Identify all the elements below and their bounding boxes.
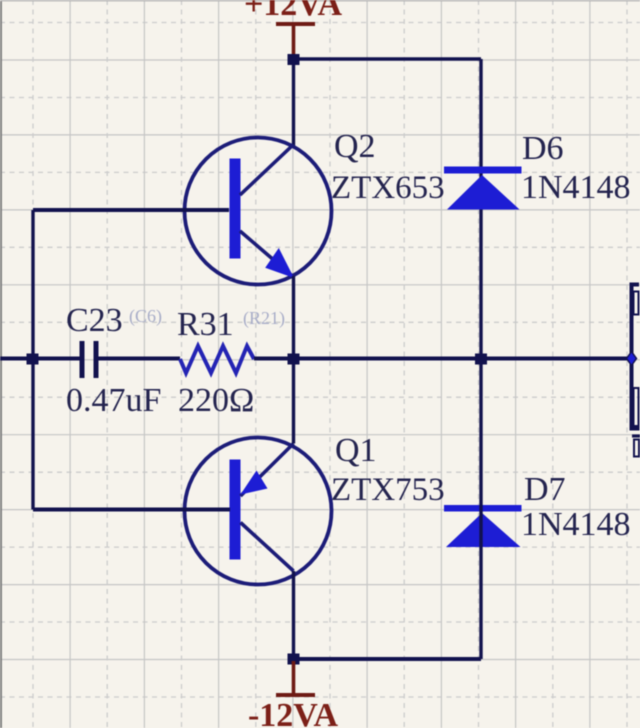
svg-text:Q2: Q2: [334, 128, 376, 165]
junction diode branch: [475, 354, 487, 365]
connector fragment right edge: [627, 285, 640, 457]
diode D6: [444, 167, 522, 210]
junction top rail: [288, 54, 300, 65]
wire left branch vertical: [31, 210, 34, 510]
wire cap to resistor: [98, 357, 180, 361]
svg-text:0.47uF: 0.47uF: [66, 382, 161, 419]
wire D6 cathode vertical: [479, 59, 482, 359]
wire Q2 collector vertical: [292, 59, 295, 148]
svg-text:D7: D7: [524, 471, 566, 508]
resistor R31: [180, 346, 254, 373]
wire Q1 base horizontal: [33, 508, 230, 512]
wire D7 branch vertical: [479, 359, 482, 660]
transistor Q2: [185, 138, 332, 285]
svg-text:220Ω: 220Ω: [178, 382, 254, 419]
power -12VA: [248, 661, 338, 728]
svg-text:R31: R31: [177, 306, 234, 343]
svg-text:ZTX753: ZTX753: [331, 472, 445, 508]
svg-text:Q1: Q1: [335, 432, 377, 469]
wire Q2 emitter vertical: [292, 276, 295, 359]
wire Q1 emitter vertical: [292, 359, 295, 444]
svg-text:1N4148: 1N4148: [521, 506, 631, 543]
svg-text:+12VA: +12VA: [244, 0, 343, 23]
svg-text:(C6): (C6): [129, 306, 162, 327]
junction center: [288, 354, 300, 365]
transistor Q1: [185, 438, 332, 585]
svg-text:1N4148: 1N4148: [521, 169, 631, 206]
wire +12V rail horizontal: [294, 57, 482, 61]
junction left branch: [27, 354, 39, 365]
wire main horizontal right: [254, 357, 629, 361]
svg-text:D6: D6: [522, 130, 564, 167]
power +12VA: [244, 0, 343, 56]
svg-text:ZTX653: ZTX653: [331, 170, 445, 206]
junction bottom rail: [288, 654, 300, 665]
svg-text:-12VA: -12VA: [248, 697, 338, 728]
diode D7: [444, 505, 522, 547]
svg-text:(R21): (R21): [243, 308, 285, 329]
svg-text:C23: C23: [66, 302, 123, 339]
capacitor C23: [82, 341, 96, 378]
wire Q2 base horizontal: [33, 208, 229, 212]
wire Q1 collector vertical: [292, 571, 295, 659]
wire bottom rail horizontal: [294, 657, 482, 661]
wire main horizontal left: [0, 357, 80, 361]
